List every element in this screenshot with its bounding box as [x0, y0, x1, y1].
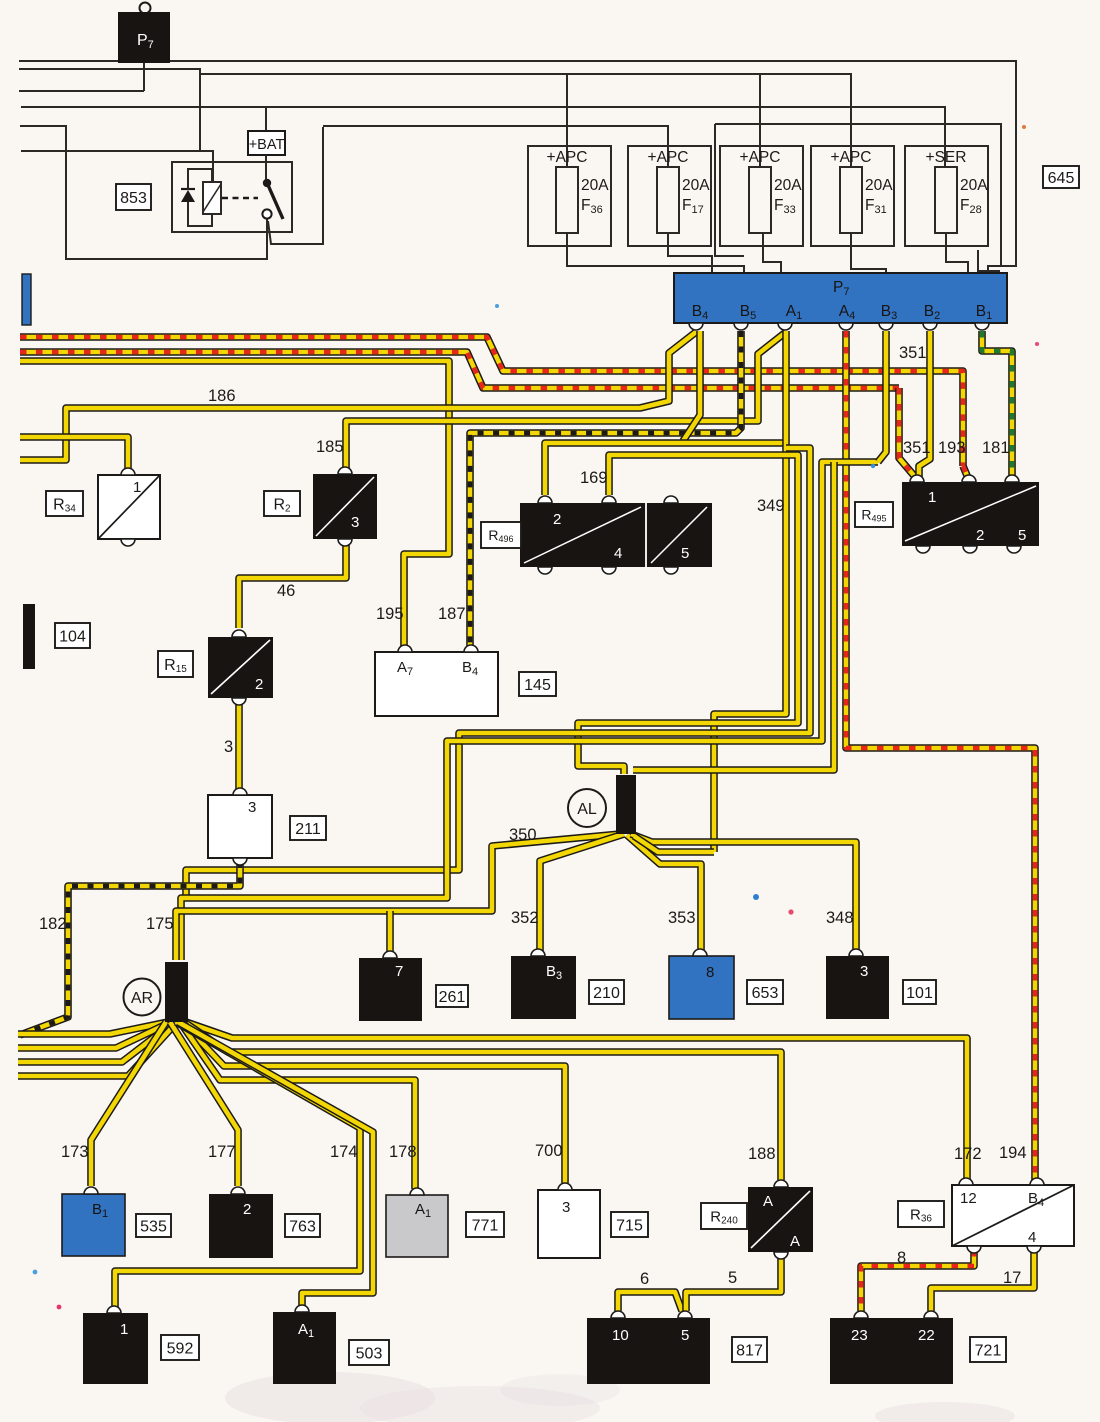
- wire 187 yellow/black B5 to 145: [470, 331, 741, 648]
- splice AL: [616, 775, 636, 834]
- svg-text:8: 8: [897, 1249, 906, 1267]
- wire AL/AR link 1: [186, 448, 810, 898]
- wire B4 drop 2: [683, 331, 700, 441]
- relay R34: [98, 475, 160, 539]
- unit 1 (592): [83, 1313, 148, 1384]
- svg-text:181: 181: [982, 439, 1010, 457]
- svg-text:353: 353: [668, 909, 696, 927]
- svg-text:853: 853: [120, 190, 147, 207]
- label 763: [285, 1214, 320, 1237]
- unit A1 (503): [273, 1312, 336, 1384]
- diode branch: [188, 169, 212, 226]
- wire B2 to R495 pin1: [919, 331, 930, 478]
- svg-text:211: 211: [295, 821, 321, 838]
- label 535: [136, 1214, 171, 1237]
- relay 853 outer box: [172, 162, 292, 232]
- wire fuse F17 to P7: [668, 233, 712, 273]
- connector label 645: [1043, 166, 1079, 188]
- svg-text:AL: AL: [577, 801, 597, 818]
- unit 23/22 (721): [830, 1318, 953, 1384]
- wire fuse F28 bus: [21, 107, 945, 167]
- svg-text:195: 195: [376, 605, 404, 623]
- wire 5: [686, 1257, 781, 1311]
- svg-text:535: 535: [140, 1218, 167, 1235]
- svg-text:6: 6: [640, 1270, 649, 1288]
- svg-text:3: 3: [224, 738, 233, 756]
- wire 181 yellow/green B1 to R495: [982, 331, 1012, 478]
- fuse F33 box: [720, 146, 803, 246]
- relay R495: [902, 482, 1039, 546]
- svg-text:178: 178: [389, 1143, 417, 1161]
- label R15: [158, 651, 193, 677]
- wire 178: [180, 1022, 415, 1189]
- svg-text:5: 5: [728, 1269, 737, 1287]
- wire 188: [184, 1022, 781, 1180]
- fuse F36 box: [528, 146, 611, 246]
- wire fuse F36 to P7: [567, 233, 744, 273]
- svg-text:+APC: +APC: [648, 149, 689, 166]
- svg-text:348: 348: [826, 909, 854, 927]
- svg-text:1: 1: [133, 479, 141, 496]
- svg-text:188: 188: [748, 1145, 776, 1163]
- svg-text:2: 2: [255, 676, 263, 693]
- wire 350 AL to AR: [176, 834, 620, 960]
- node left blue bar: [22, 274, 31, 325]
- svg-text:700: 700: [535, 1142, 563, 1160]
- svg-text:592: 592: [167, 1340, 194, 1357]
- svg-text:175: 175: [146, 915, 174, 933]
- svg-text:+APC: +APC: [740, 149, 781, 166]
- connector P7 top symbol: [118, 3, 170, 64]
- wire 172: [186, 1022, 967, 1180]
- svg-text:8: 8: [706, 964, 714, 981]
- svg-text:193: 193: [938, 439, 966, 457]
- svg-text:3: 3: [562, 1199, 570, 1216]
- svg-text:20A: 20A: [581, 177, 609, 194]
- wire P7 supply drop: [19, 61, 144, 91]
- svg-text:4: 4: [614, 545, 622, 562]
- fuse F17 box: [628, 146, 711, 246]
- svg-text:185: 185: [316, 438, 344, 456]
- unit 3 (101): [826, 956, 889, 1019]
- svg-text:4: 4: [1028, 1229, 1036, 1246]
- wire fuse F31 to P7: [851, 233, 886, 273]
- wire 351 drop to R495: [899, 388, 916, 478]
- wire AL/AR link 2: [181, 462, 878, 960]
- unit A1 (771) gray: [386, 1195, 448, 1257]
- unit 10/5 (817): [587, 1318, 710, 1384]
- fuse F31 box: [811, 146, 894, 246]
- wire 185 R2 to A1: [346, 332, 786, 471]
- svg-text:174: 174: [330, 1143, 358, 1161]
- wire relay switch return: [20, 126, 267, 259]
- svg-text:645: 645: [1048, 170, 1075, 187]
- relay coil: [203, 182, 221, 214]
- svg-text:182: 182: [39, 915, 67, 933]
- svg-text:104: 104: [59, 628, 86, 645]
- wire fuse F17 feed: [323, 126, 668, 167]
- fuse F28 box: [905, 146, 988, 246]
- svg-text:653: 653: [752, 985, 779, 1002]
- svg-text:+APC: +APC: [547, 149, 588, 166]
- wire A1 down to AL fan: [714, 331, 786, 852]
- svg-text:210: 210: [593, 985, 620, 1002]
- svg-text:194: 194: [999, 1144, 1027, 1162]
- wire 169: [545, 443, 786, 495]
- svg-text:721: 721: [975, 1342, 1002, 1359]
- svg-text:20A: 20A: [865, 177, 893, 194]
- wire fuse F28 to P7: [946, 233, 968, 273]
- svg-text:5: 5: [1018, 527, 1026, 544]
- svg-text:351: 351: [899, 344, 927, 362]
- dashed actuator link: [222, 197, 258, 199]
- svg-text:22: 22: [918, 1327, 935, 1344]
- svg-text:763: 763: [289, 1218, 316, 1235]
- svg-text:+APC: +APC: [831, 149, 872, 166]
- wire fuse bus F31: [200, 74, 851, 167]
- svg-text:173: 173: [61, 1143, 89, 1161]
- wire B3 to AL top: [633, 462, 834, 770]
- unit B3 (210): [511, 956, 576, 1019]
- wire AR fan left 4: [18, 1022, 177, 1076]
- wire 17: [931, 1250, 1034, 1311]
- svg-text:2: 2: [976, 527, 984, 544]
- svg-text:17: 17: [1003, 1269, 1021, 1287]
- wire relay feed: [19, 69, 200, 151]
- wire B3 down: [878, 331, 886, 462]
- label R2: [264, 491, 300, 516]
- wire to unit 7: [386, 911, 394, 952]
- svg-text:+SER: +SER: [926, 149, 967, 166]
- svg-text:349: 349: [757, 497, 785, 515]
- svg-text:352: 352: [511, 909, 539, 927]
- unit 7 (261): [359, 958, 422, 1021]
- wire 46: [239, 540, 346, 628]
- wire switch to fuse bus: [268, 127, 323, 244]
- wire 177: [170, 1022, 238, 1186]
- wire AR to A1 503: [178, 1022, 373, 1310]
- svg-text:A: A: [790, 1233, 800, 1250]
- connector 145 box: [375, 652, 498, 716]
- unit 3 (715) white: [538, 1190, 600, 1258]
- svg-text:1: 1: [928, 489, 936, 506]
- scan specks: [33, 125, 1039, 1309]
- svg-text:186: 186: [208, 387, 236, 405]
- wire 195: [20, 361, 449, 648]
- wire to R34 pin 1: [20, 437, 128, 472]
- svg-text:20A: 20A: [960, 177, 988, 194]
- svg-text:169: 169: [580, 469, 608, 487]
- scan stains: [225, 1372, 1015, 1422]
- label 715: [611, 1212, 648, 1237]
- wire 353: [627, 835, 701, 952]
- svg-text:771: 771: [472, 1217, 499, 1234]
- wire fuse enclosure right: [715, 124, 1001, 266]
- wire 349 to AL: [578, 455, 798, 774]
- connector P7 blue: [674, 273, 1007, 323]
- svg-text:261: 261: [439, 989, 466, 1006]
- connector 211 box: [208, 795, 272, 858]
- unit B1 (535) blue: [62, 1194, 125, 1256]
- wire 352: [540, 834, 624, 952]
- label 210: [589, 980, 624, 1004]
- label 261: [436, 985, 468, 1007]
- wire AR fan left 3: [18, 1022, 174, 1062]
- wire 351 bus yellow/red: [20, 352, 899, 388]
- relay R2: [313, 474, 377, 539]
- wire 194 A4 yellow/red to R36: [846, 331, 1035, 1181]
- svg-text:145: 145: [524, 677, 551, 694]
- label 817: [732, 1337, 767, 1362]
- wire AL fan to A1 branch: [634, 836, 714, 852]
- svg-text:817: 817: [736, 1342, 763, 1359]
- svg-text:3: 3: [248, 799, 256, 816]
- relay R36: [952, 1185, 1074, 1246]
- label 721: [970, 1337, 1006, 1362]
- label 211: [290, 816, 326, 840]
- relay R15: [208, 637, 273, 698]
- svg-text:3: 3: [860, 963, 868, 980]
- wire AR fan left 2: [18, 1022, 171, 1048]
- wire 182 yellow/black: [20, 862, 240, 1035]
- node left black bar 104: [23, 604, 35, 669]
- svg-text:503: 503: [356, 1345, 383, 1362]
- svg-text:7: 7: [395, 963, 403, 980]
- wire fuse F36 drop: [566, 74, 568, 167]
- svg-text:177: 177: [208, 1143, 236, 1161]
- svg-text:10: 10: [612, 1327, 629, 1344]
- label 771: [466, 1212, 504, 1237]
- svg-text:+BAT: +BAT: [249, 137, 285, 153]
- wire top bus to P7 right: [19, 61, 1016, 274]
- label 592: [161, 1335, 199, 1360]
- +BAT label: [248, 131, 285, 155]
- wire fuse F33 drop: [759, 74, 761, 167]
- svg-text:2: 2: [553, 511, 561, 528]
- wire 348: [631, 834, 856, 952]
- svg-text:3: 3: [351, 514, 359, 531]
- unit 8 (653) blue: [669, 956, 734, 1019]
- svg-text:5: 5: [681, 545, 689, 562]
- label 653: [747, 980, 783, 1004]
- wire 186: [20, 332, 696, 460]
- svg-text:1: 1: [120, 1321, 128, 1338]
- wire 3: [235, 700, 243, 792]
- splice AR: [165, 962, 188, 1022]
- wire 173: [91, 1022, 166, 1186]
- svg-text:351: 351: [903, 439, 931, 457]
- svg-text:AR: AR: [131, 990, 153, 1007]
- label R496: [481, 522, 521, 548]
- svg-text:172: 172: [954, 1145, 982, 1163]
- label R495: [855, 502, 893, 527]
- relay R496: [520, 503, 712, 567]
- label R240: [701, 1203, 747, 1229]
- label 503: [349, 1340, 389, 1365]
- wire 8 yellow/red: [861, 1250, 974, 1311]
- wire 6: [618, 1292, 682, 1311]
- wire 174: [115, 1022, 360, 1310]
- label 104: [55, 623, 90, 648]
- svg-text:101: 101: [906, 985, 933, 1002]
- label 853: [116, 184, 151, 210]
- svg-text:187: 187: [438, 605, 466, 623]
- wire AR fan left 1: [18, 1022, 168, 1034]
- wire fuse F33 to P7: [763, 233, 781, 273]
- wire relay coil feed: [21, 151, 213, 182]
- svg-text:20A: 20A: [682, 177, 710, 194]
- wire fuse enclosure left: [715, 124, 744, 256]
- svg-text:12: 12: [960, 1190, 977, 1207]
- svg-text:5: 5: [681, 1327, 689, 1344]
- wire +BAT feed: [265, 107, 267, 132]
- wire 700: [182, 1022, 565, 1183]
- label 145: [519, 672, 556, 696]
- label R36: [898, 1201, 944, 1227]
- svg-text:350: 350: [509, 826, 537, 844]
- label 101: [903, 980, 936, 1004]
- svg-text:23: 23: [851, 1327, 868, 1344]
- relay R240: [748, 1187, 813, 1252]
- label R34: [46, 491, 83, 516]
- svg-text:A: A: [763, 1193, 773, 1210]
- svg-text:2: 2: [243, 1201, 251, 1218]
- svg-text:20A: 20A: [774, 177, 802, 194]
- wire junction to P7: [978, 250, 999, 273]
- unit 2 (763): [209, 1194, 273, 1258]
- relay switch: [263, 179, 271, 187]
- wire +BAT to switch: [265, 155, 267, 179]
- svg-text:46: 46: [277, 582, 295, 600]
- svg-text:715: 715: [616, 1217, 643, 1234]
- wire 193 bus yellow/red: [20, 337, 963, 466]
